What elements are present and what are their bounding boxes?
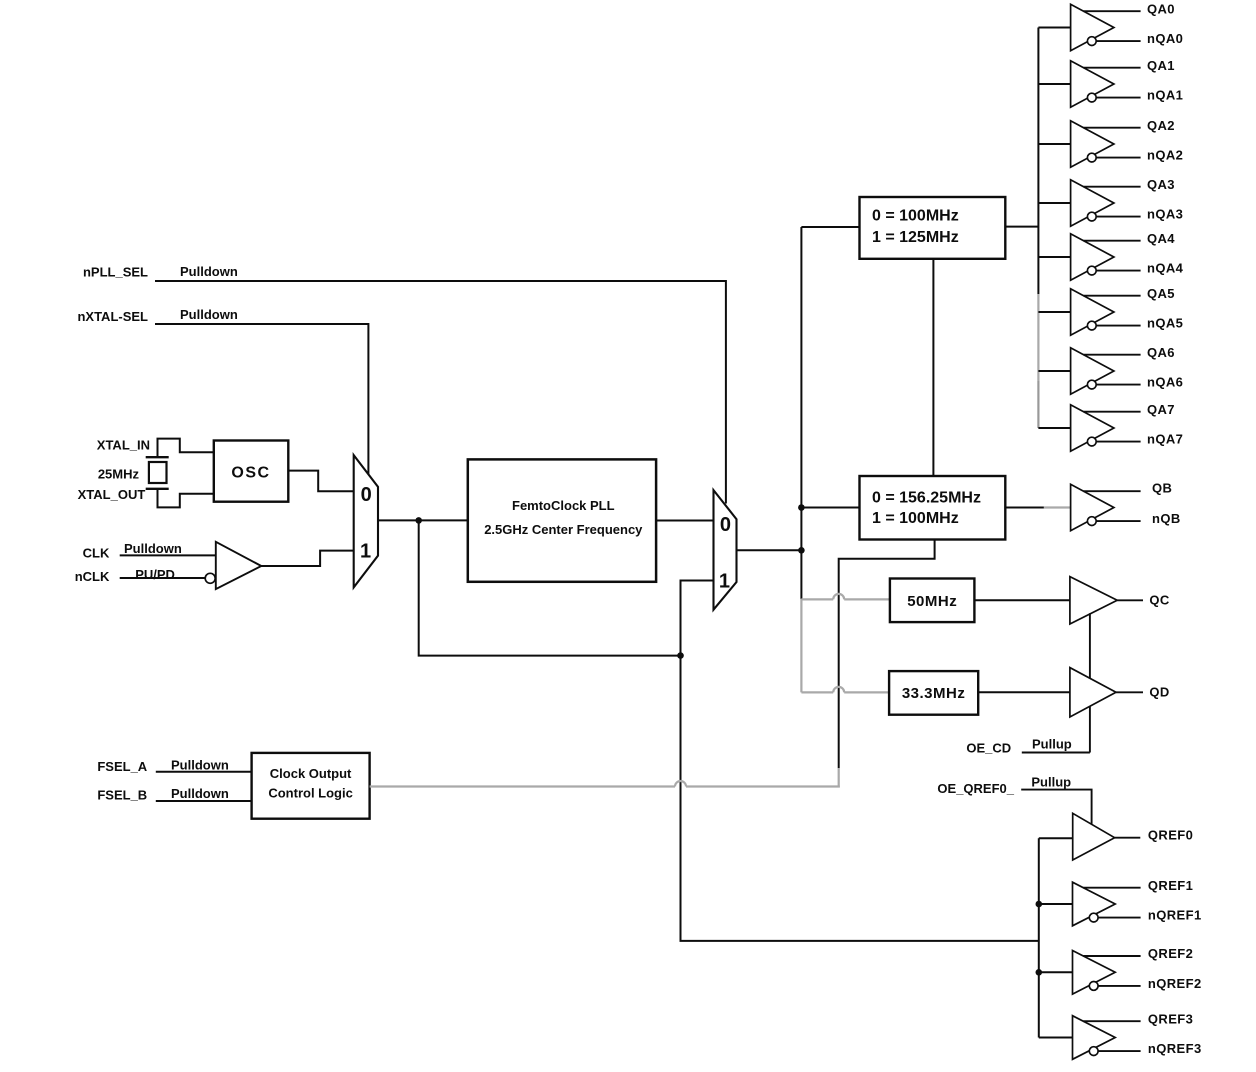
svg-text:Pullup: Pullup: [1032, 737, 1072, 752]
svg-text:QC: QC: [1149, 593, 1170, 608]
mux U2 pin 1 label: [719, 571, 730, 593]
svg-text:Clock Output: Clock Output: [270, 766, 352, 781]
output buffer QA0: [1071, 4, 1141, 50]
svg-text:QA7: QA7: [1147, 402, 1175, 417]
node nPLL_SEL label: [83, 265, 148, 280]
crystal Y1 body: [149, 462, 167, 483]
divider A box: [860, 197, 1006, 259]
svg-text:0: 0: [720, 514, 731, 536]
crystal Y1 bottom plate: [146, 488, 169, 490]
svg-text:0 = 156.25MHz: 0 = 156.25MHz: [872, 490, 981, 507]
node divider A tap junction: [798, 504, 805, 511]
svg-text:1 = 100MHz: 1 = 100MHz: [872, 510, 959, 527]
node QD label: [1149, 685, 1169, 700]
pll U4 label line 2: [484, 522, 643, 537]
wire 50MHz divider input gray with hop: [801, 594, 890, 600]
wire OE_QREF0 pullup to QREF0: [1021, 790, 1091, 825]
node OE_CD label: [966, 741, 1011, 756]
output buffer QREF3: [1073, 1016, 1141, 1060]
wire divider A to divider B select: [932, 259, 934, 476]
wire buffer QREF0 input: [1039, 837, 1073, 839]
wire XTAL_IN to OSC: [158, 439, 214, 458]
output buffer QA5: [1071, 289, 1141, 335]
svg-text:Pulldown: Pulldown: [171, 758, 229, 773]
svg-text:FSEL_B: FSEL_B: [97, 787, 147, 802]
value 25MHz label: [98, 467, 140, 482]
node OE_QREF0_ label: [937, 781, 1014, 796]
node QA4 label: [1147, 231, 1175, 246]
mux U2 pin 0 label: [720, 514, 731, 536]
wire CLK pulldown label: [124, 541, 182, 556]
svg-text:OSC: OSC: [231, 464, 270, 481]
mux U1 pin 1 label: [360, 541, 371, 563]
svg-text:Pulldown: Pulldown: [124, 541, 182, 556]
wire divider A output to QA bus: [1005, 226, 1038, 228]
wire 33.3MHz divider input gray with hop: [801, 687, 889, 693]
wire mux U2 output: [737, 549, 802, 551]
svg-text:OE_CD: OE_CD: [966, 741, 1011, 756]
node QB label: [1152, 481, 1172, 496]
wire OE vertical: [1089, 613, 1091, 752]
wire nXTAL-SEL pulldown label: [180, 307, 238, 322]
svg-text:33.3MHz: 33.3MHz: [902, 685, 966, 702]
svg-text:0: 0: [361, 484, 372, 506]
wire buffer QA1 input tap: [1038, 83, 1070, 85]
svg-text:Pullup: Pullup: [1031, 774, 1071, 789]
svg-text:1: 1: [360, 541, 371, 563]
wire distribution vertical black: [800, 227, 802, 599]
svg-text:QREF2: QREF2: [1148, 946, 1193, 961]
node nQA7 label: [1147, 432, 1183, 447]
node bypass junction: [677, 652, 684, 659]
node QREF2 label: [1148, 946, 1193, 961]
svg-text:nQA0: nQA0: [1147, 31, 1183, 46]
wire 33.3MHz to buffer QD: [978, 691, 1070, 693]
output buffer QA6: [1071, 348, 1141, 394]
mux U1: [354, 455, 378, 587]
wire divider A input: [801, 226, 859, 228]
mux U1 pin 0 label: [361, 484, 372, 506]
svg-text:FSEL_A: FSEL_A: [97, 759, 147, 774]
svg-text:nQA2: nQA2: [1147, 148, 1183, 163]
divider B label line 2: [872, 510, 959, 527]
node QREF0 label: [1148, 828, 1193, 843]
svg-text:50MHz: 50MHz: [907, 593, 957, 610]
divider D 33.3MHz box: [889, 671, 978, 715]
svg-text:nQREF3: nQREF3: [1148, 1041, 1202, 1056]
node nQA1 label: [1147, 88, 1183, 103]
wire divider B output gray: [1044, 506, 1071, 508]
mux U2: [714, 490, 737, 610]
wire QA bus vertical gray lower: [1037, 381, 1039, 428]
svg-text:0 = 100MHz: 0 = 100MHz: [872, 208, 959, 225]
node mux U1 output junction: [415, 517, 422, 524]
wire distribution vertical gray: [800, 599, 802, 693]
svg-text:Pulldown: Pulldown: [180, 264, 238, 279]
node QA2 label: [1147, 118, 1175, 133]
divider A label line 1: [872, 208, 959, 225]
node nQREF2 label: [1148, 976, 1202, 991]
output buffer QB: [1071, 484, 1141, 530]
wire 50MHz to buffer QC: [974, 599, 1070, 601]
control logic U5 box: [252, 753, 370, 819]
pll U4 FemtoClock box: [468, 459, 656, 581]
svg-text:1 = 125MHz: 1 = 125MHz: [872, 229, 959, 246]
wire FSEL_B input: [156, 800, 252, 802]
node nQREF3 label: [1148, 1041, 1202, 1056]
svg-text:QREF1: QREF1: [1148, 878, 1193, 893]
divider C 50MHz box: [890, 579, 975, 623]
svg-text:2.5GHz Center Frequency: 2.5GHz Center Frequency: [484, 522, 643, 537]
node nQREF1 label: [1148, 908, 1202, 923]
node QC label: [1149, 593, 1170, 608]
wire buffer QA4 input tap: [1038, 256, 1070, 258]
svg-text:QA6: QA6: [1147, 345, 1175, 360]
node QA0 label: [1147, 1, 1175, 16]
output buffer QA4: [1071, 234, 1141, 280]
wire OSC output to mux U1 input 0: [288, 471, 353, 492]
wire nCLK input: [120, 577, 206, 579]
svg-text:PU/PD: PU/PD: [135, 567, 175, 582]
svg-text:Pulldown: Pulldown: [171, 786, 229, 801]
svg-text:nPLL_SEL: nPLL_SEL: [83, 265, 148, 280]
svg-text:nQA7: nQA7: [1147, 432, 1183, 447]
svg-text:QREF3: QREF3: [1148, 1011, 1193, 1026]
wire buffer QA0 input tap: [1038, 27, 1070, 29]
control logic U5 label line 1: [270, 766, 352, 781]
svg-text:1: 1: [719, 571, 730, 593]
node QREF1 junction: [1036, 901, 1073, 908]
wire OE_CD pullup: [1022, 752, 1090, 754]
wire buffer QA2 input tap: [1038, 143, 1070, 145]
divider A label line 2: [872, 229, 959, 246]
divider C value label: [907, 593, 957, 610]
svg-text:nQREF2: nQREF2: [1148, 976, 1202, 991]
node nQA4 label: [1147, 261, 1184, 276]
output buffer QD: [1070, 668, 1143, 717]
oscillator OSC label: [231, 464, 270, 481]
node FSEL_B label: [97, 787, 147, 802]
output buffer QREF0: [1073, 813, 1141, 860]
wire divider select gray stub: [838, 768, 840, 788]
wire mux U1 output to PLL: [378, 519, 468, 521]
node QA7 label: [1147, 402, 1175, 417]
wire QREF feed bus vertical: [1038, 838, 1040, 1037]
pll U4 label line 1: [512, 498, 615, 513]
node mux U2 output junction: [798, 547, 805, 554]
wire PLL bypass feedback: [419, 520, 681, 655]
wire bypass to mux U2 input 1 and QREF feed: [681, 581, 1039, 941]
svg-text:XTAL_IN: XTAL_IN: [97, 438, 150, 453]
output buffer QA2: [1071, 121, 1141, 167]
node QA6 label: [1147, 345, 1175, 360]
wire nPLL_SEL pulldown label: [180, 264, 238, 279]
wire FSEL_B pulldown label: [171, 786, 229, 801]
svg-text:Pulldown: Pulldown: [180, 307, 238, 322]
wire FSEL_A pulldown label: [171, 758, 229, 773]
wire QA bus vertical black: [1037, 28, 1039, 295]
wire buffer QA6 input tap: [1038, 370, 1070, 372]
svg-text:CLK: CLK: [83, 545, 110, 560]
node QA3 label: [1147, 177, 1175, 192]
divider B label line 1: [872, 490, 981, 507]
wire FSEL_A input: [156, 771, 252, 773]
wire buffer QA7 input tap: [1038, 427, 1070, 429]
wire OE_QREF0 pullup label: [1031, 774, 1071, 789]
svg-text:Control Logic: Control Logic: [268, 785, 353, 800]
wire PLL output to mux U2 input 0: [656, 520, 713, 522]
output buffer QA1: [1071, 61, 1141, 107]
node XTAL_IN label: [97, 438, 150, 453]
wire divider B output black: [1005, 507, 1044, 509]
svg-text:nQA6: nQA6: [1147, 375, 1183, 390]
node nQA6 label: [1147, 375, 1183, 390]
node nCLK label: [75, 569, 110, 584]
node QREF1 label: [1148, 878, 1193, 893]
wire nPLL_SEL to mux U2 select: [155, 281, 726, 504]
crystal Y1 top plate: [146, 456, 169, 458]
wire QREF3 corner: [1039, 1037, 1073, 1039]
wire control logic output gray with hop: [370, 781, 840, 787]
svg-text:FemtoClock PLL: FemtoClock PLL: [512, 498, 615, 513]
divider D value label: [902, 685, 966, 702]
svg-text:QD: QD: [1149, 685, 1169, 700]
node nQA0 label: [1147, 31, 1183, 46]
svg-text:nQA4: nQA4: [1147, 261, 1184, 276]
svg-text:nQA3: nQA3: [1147, 207, 1183, 222]
node QA5 label: [1147, 286, 1175, 301]
node nQA5 label: [1147, 316, 1183, 331]
input buffer U3 clk receiver: [216, 542, 261, 589]
wire buffer QA5 input tap: [1038, 311, 1070, 313]
svg-text:QA2: QA2: [1147, 118, 1175, 133]
svg-text:QA4: QA4: [1147, 231, 1175, 246]
wire OE_CD pullup label: [1032, 737, 1072, 752]
node QREF3 label: [1148, 1011, 1193, 1026]
svg-text:XTAL_OUT: XTAL_OUT: [78, 487, 146, 502]
svg-text:25MHz: 25MHz: [98, 467, 140, 482]
wire nCLK PU/PD label: [135, 567, 175, 582]
node nQB label: [1152, 511, 1181, 526]
node FSEL_A label: [97, 759, 147, 774]
svg-text:nQREF1: nQREF1: [1148, 908, 1202, 923]
svg-text:nCLK: nCLK: [75, 569, 110, 584]
svg-text:nQA1: nQA1: [1147, 88, 1183, 103]
svg-text:QREF0: QREF0: [1148, 828, 1193, 843]
wire QA bus vertical gray upper: [1037, 294, 1039, 381]
control logic U5 label line 2: [268, 785, 353, 800]
svg-text:nQB: nQB: [1152, 511, 1181, 526]
node nQA3 label: [1147, 207, 1183, 222]
node QA1 label: [1147, 58, 1175, 73]
output buffer QREF2: [1073, 951, 1141, 995]
svg-text:nQA5: nQA5: [1147, 316, 1183, 331]
svg-text:QB: QB: [1152, 481, 1172, 496]
wire CLK input: [120, 554, 216, 556]
svg-text:QA1: QA1: [1147, 58, 1175, 73]
svg-text:OE_QREF0_: OE_QREF0_: [937, 781, 1014, 796]
node nQA2 label: [1147, 148, 1183, 163]
svg-text:nXTAL-SEL: nXTAL-SEL: [77, 309, 148, 324]
output buffer QA3: [1071, 180, 1141, 226]
svg-text:QA3: QA3: [1147, 177, 1175, 192]
wire XTAL_OUT to OSC: [158, 489, 214, 508]
wire nXTAL-SEL to mux U1 select: [155, 324, 368, 475]
node XTAL_OUT label: [78, 487, 146, 502]
svg-text:QA5: QA5: [1147, 286, 1175, 301]
output buffer QC: [1070, 577, 1143, 624]
divider B box: [860, 476, 1006, 540]
wire buffer QA3 input tap: [1038, 202, 1070, 204]
node QREF2 junction: [1036, 969, 1073, 976]
node nXTAL-SEL label: [77, 309, 148, 324]
oscillator OSC box: [214, 441, 288, 502]
node CLK label: [83, 545, 110, 560]
output buffer QREF1: [1073, 882, 1141, 926]
svg-text:QA0: QA0: [1147, 1, 1175, 16]
wire divider B select route: [839, 540, 935, 769]
input buffer U3 inverting bubble: [205, 573, 215, 583]
wire U3 output to mux U1 input 1: [261, 551, 353, 566]
wire divider B input: [801, 507, 859, 509]
output buffer QA7: [1071, 405, 1141, 451]
